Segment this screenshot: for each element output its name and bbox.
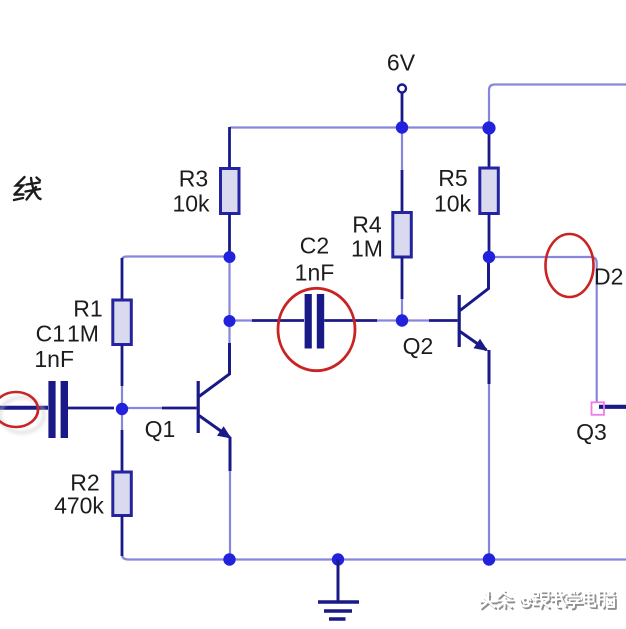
capacitor C1 <box>0 381 114 438</box>
resistor R3 <box>221 127 240 255</box>
svg-text:R1: R1 <box>73 296 102 322</box>
svg-text:1M: 1M <box>351 236 383 262</box>
transistor Q1 <box>162 343 232 471</box>
junction dot R5 bottom <box>483 251 495 263</box>
svg-text:R3: R3 <box>179 166 208 192</box>
annotation ellipse C2 <box>278 288 355 370</box>
svg-text:R5: R5 <box>438 165 467 191</box>
transistor Q2 <box>429 257 489 384</box>
wire collector column Q1 <box>228 257 230 343</box>
annotation shadow left <box>0 398 44 433</box>
junction dot bottom rail ground <box>332 553 344 565</box>
power terminal 6V circle <box>398 85 406 93</box>
junction dot C2 tap <box>224 315 236 327</box>
wire base row Q1 lavender <box>117 407 162 409</box>
node handle Q3 (pink square) <box>592 402 605 415</box>
wire Q1 emitter lavender <box>229 470 231 558</box>
junction dot top 6V <box>396 121 408 133</box>
resistor R5 <box>480 128 499 256</box>
wire D2 row <box>489 257 597 402</box>
resistor R2 <box>113 430 132 556</box>
svg-text:1nF: 1nF <box>295 260 335 286</box>
wire R4 bottom lavender <box>401 298 403 320</box>
svg-text:Q1: Q1 <box>145 416 176 442</box>
wire C2 right lavender <box>376 319 429 321</box>
svg-text:R4: R4 <box>352 212 382 238</box>
svg-text:10k: 10k <box>172 191 210 217</box>
annotation ellipse D2 <box>546 234 594 297</box>
wire C2 left lavender <box>230 319 253 321</box>
svg-text:Q2: Q2 <box>403 333 434 359</box>
svg-text:C2: C2 <box>300 233 329 259</box>
resistor R1 <box>113 258 132 386</box>
junction dot bottom rail Q1 <box>223 553 235 565</box>
junction dot base node Q1 <box>116 403 128 415</box>
junction dot bottom rail Q2 <box>483 553 495 565</box>
junction dot top R5 <box>482 121 495 134</box>
resistor R4 <box>393 170 412 299</box>
text 线 (hand drawn) <box>14 177 41 200</box>
annotation ellipse input <box>0 392 38 427</box>
wire top-right to edge <box>489 85 626 129</box>
junction dot R4 bottom <box>396 314 408 326</box>
svg-text:1nF: 1nF <box>34 346 74 372</box>
junction dot R3 bottom <box>224 251 236 263</box>
wire bottom rail <box>122 554 626 560</box>
svg-text:470k: 470k <box>54 493 104 519</box>
wire R1 bottom lavender <box>121 386 123 430</box>
svg-text:Q3: Q3 <box>576 419 607 445</box>
watermark 头条@跟我学电脑 <box>480 591 616 609</box>
svg-text:6V: 6V <box>387 50 416 76</box>
pin 6V stem <box>401 93 404 127</box>
svg-text:C1: C1 <box>36 321 65 347</box>
wire top rail <box>230 126 489 128</box>
svg-text:1M: 1M <box>67 321 99 347</box>
svg-text:10k: 10k <box>434 191 472 217</box>
wire Q2 emitter lavender <box>488 383 490 558</box>
capacitor C2 <box>252 294 377 349</box>
wire R4 top lavender <box>401 128 403 172</box>
ground <box>318 560 359 620</box>
svg-text:D2: D2 <box>594 264 623 290</box>
wire R1 top row <box>122 257 228 261</box>
wire Q3 base <box>599 405 626 409</box>
